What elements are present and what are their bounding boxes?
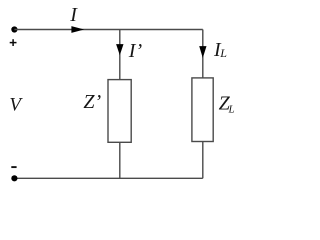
wire right branch vertical (top)	[202, 30, 204, 78]
arrow I' direction (down)	[116, 44, 123, 55]
svg-text:I’: I’	[128, 40, 143, 62]
svg-text:V: V	[9, 95, 23, 116]
svg-text:L: L	[228, 104, 235, 116]
wire left branch vertical (top)	[119, 30, 121, 80]
svg-text:L: L	[219, 46, 227, 60]
impedance ZL box	[192, 78, 213, 142]
impedance Z' box	[108, 80, 131, 143]
wire bottom horizontal	[14, 177, 202, 179]
wire right branch vertical (bottom)	[202, 142, 204, 179]
plus terminal sign	[10, 39, 17, 46]
node top-left terminal dot	[11, 26, 17, 32]
node bottom-left terminal dot	[11, 175, 17, 181]
wire top horizontal	[14, 29, 202, 31]
minus terminal sign	[11, 166, 16, 168]
arrow I direction (right)	[71, 26, 84, 33]
arrow IL direction (down)	[199, 46, 206, 58]
svg-text:I: I	[69, 4, 78, 26]
svg-text:Z’: Z’	[83, 91, 101, 113]
wire left branch vertical (bottom)	[119, 142, 121, 178]
